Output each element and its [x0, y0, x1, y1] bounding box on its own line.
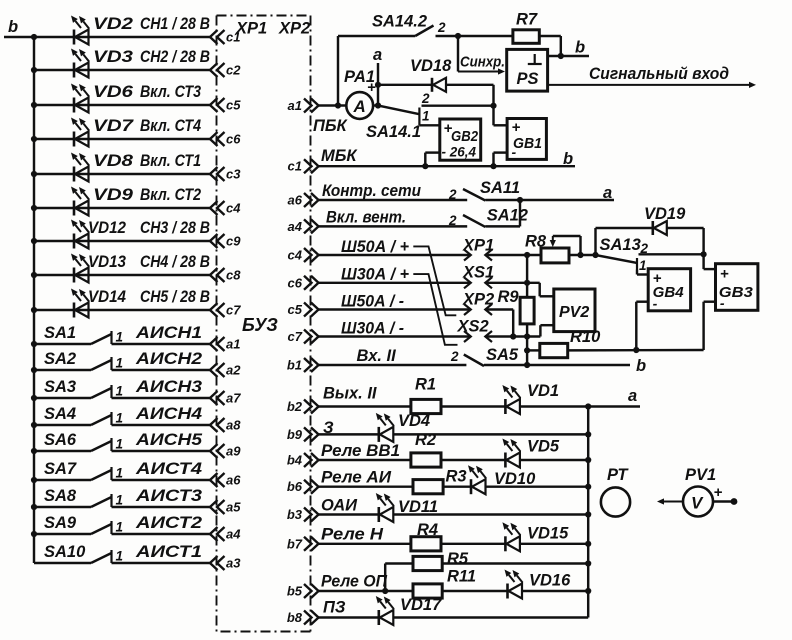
junction R9 bottom on b line: [524, 362, 530, 368]
connector pin a6 (XP2 right): [288, 193, 319, 208]
junction bus-VD3: [31, 67, 37, 73]
switch SA4: [91, 411, 123, 426]
wire Vyh-II row from pin b2: [319, 405, 411, 407]
svg-text:СН2 / 28 В: СН2 / 28 В: [140, 48, 210, 66]
svg-text:a4: a4: [226, 527, 241, 542]
LED VD14: [71, 289, 89, 318]
label VD11: [398, 498, 438, 516]
svg-text:b4: b4: [287, 453, 303, 468]
svg-text:VD12: VD12: [88, 219, 126, 237]
wire Kontr-seti row from pin a6: [319, 199, 468, 201]
label АИСТ2: [135, 514, 202, 532]
label АИСН5: [135, 431, 203, 449]
label SA7: [44, 460, 77, 478]
svg-text:b5: b5: [287, 584, 303, 599]
label Sh50A/+: [341, 238, 409, 256]
wire MBK row to node b: [319, 165, 576, 167]
LED VD13: [71, 254, 89, 283]
label VD9: [93, 186, 134, 204]
connector pin b8 (XP2 right): [287, 610, 319, 625]
node b (top): [575, 39, 585, 57]
resistor R11: [413, 584, 442, 598]
svg-text:PV2: PV2: [559, 304, 589, 321]
junction bus-SA7: [31, 477, 37, 483]
svg-text:b: b: [563, 150, 573, 168]
svg-text:VD14: VD14: [88, 288, 126, 306]
svg-text:c7: c7: [288, 329, 303, 344]
junction GB2-MBK: [422, 163, 428, 169]
wire row SA4 left part: [34, 424, 91, 426]
wire row SA3 right part: [112, 397, 211, 399]
indicator PT: [601, 487, 630, 516]
svg-text:1: 1: [422, 109, 430, 124]
label OAI: [321, 497, 358, 515]
wire SA11 to node a: [485, 199, 614, 201]
svg-text:2: 2: [437, 20, 446, 35]
svg-text:СН3 / 28 В: СН3 / 28 В: [140, 219, 210, 237]
wire Vkl-vent row from pin a4: [319, 225, 468, 227]
block PS synchronizer: [507, 49, 548, 91]
label plus at PV1: [714, 484, 723, 501]
connector pin b7 (XP2 right): [287, 536, 319, 551]
resistor R10: [540, 343, 568, 357]
label Sh30A/-: [341, 320, 404, 338]
svg-text:R3: R3: [446, 468, 467, 486]
svg-text:c4: c4: [288, 248, 303, 263]
connector pin a3 (XP1 left): [210, 556, 241, 571]
svg-text:c1: c1: [226, 30, 240, 45]
wire Sh30A/- row from pin c7: [319, 335, 471, 337]
svg-text:b9: b9: [287, 427, 303, 442]
junction bus2 b4: [585, 457, 591, 463]
wire row SA7 left part: [34, 479, 91, 481]
wire R10 line: [527, 349, 540, 351]
svg-text:c1: c1: [288, 159, 302, 174]
LED VD4: [376, 413, 394, 442]
node a above PA1: [373, 46, 382, 64]
svg-text:1: 1: [116, 437, 124, 452]
LED VD3: [71, 49, 89, 78]
svg-text:СН5 / 28 В: СН5 / 28 В: [140, 288, 210, 306]
wire row VD3: [34, 69, 211, 71]
label Vh. II: [357, 347, 397, 365]
LED VD11: [376, 493, 394, 522]
junction GB1-MBK: [490, 163, 496, 169]
wire row SA7 right part: [112, 479, 211, 481]
svg-text:Ш50А / -: Ш50А / -: [341, 293, 404, 311]
wire riser to SA14.2 line: [337, 36, 339, 106]
wire R8 to SA13 node: [569, 254, 596, 256]
svg-text:1: 1: [116, 520, 124, 535]
junction bus-VD8: [31, 171, 37, 177]
svg-text:a: a: [603, 184, 612, 202]
wire VD16 to bus2: [522, 590, 588, 592]
connector pin b2 (XP2 right): [287, 399, 319, 414]
junction PBK riser: [335, 102, 341, 108]
label VD5: [527, 438, 560, 456]
svg-text:Вкл. СТ1: Вкл. СТ1: [140, 152, 201, 170]
value label СН1 / 28 В for VD2: [140, 15, 210, 33]
callout line Sh50A to XS2: [413, 246, 456, 315]
svg-text:SA13: SA13: [600, 236, 641, 254]
label PT: [607, 466, 629, 484]
connector pin c1 (XP1 left): [210, 30, 240, 45]
wire PBK row from pin a1 to ammeter: [319, 104, 347, 106]
svg-text:+: +: [720, 266, 729, 283]
svg-text:Реле АИ: Реле АИ: [321, 469, 392, 487]
resistor R7: [513, 30, 539, 44]
value label СН3 / 28 В for VD12: [140, 219, 210, 237]
dashed enclosure BUZ block outline: [217, 16, 311, 632]
svg-text:c5: c5: [226, 98, 241, 113]
label PV1: [685, 466, 716, 484]
label R1: [415, 376, 436, 394]
wire R7 to b-line corner: [539, 36, 561, 56]
connector pin b1 (XP2 right): [287, 358, 319, 373]
wire Z row from pin b9: [319, 433, 379, 435]
junction bus-SA4: [31, 422, 37, 428]
svg-text:1: 1: [116, 411, 124, 426]
svg-text:Ш30А / -: Ш30А / -: [341, 320, 404, 338]
wire row SA8 left part: [34, 506, 91, 508]
svg-text:SA2: SA2: [44, 350, 76, 368]
connector pin a4 (XP2 right): [288, 219, 319, 234]
label SA14.1: [366, 123, 421, 141]
svg-text:Синхр.: Синхр.: [460, 54, 505, 71]
label Sh50A/-: [341, 293, 404, 311]
wire row VD6: [34, 104, 211, 106]
svg-text:a7: a7: [226, 391, 241, 406]
wire row SA2 right part: [112, 369, 211, 371]
label АИСН2: [135, 350, 202, 368]
wire SA13 contact1 to GB4: [637, 270, 648, 275]
junction bus2 b5: [585, 588, 591, 594]
switch SA5: [450, 349, 484, 366]
label XP1 (mid connector): [462, 237, 494, 255]
wire SA13 riser to VD19 line: [594, 228, 596, 255]
wire row SA10 left part: [34, 562, 91, 564]
junction R8 wiper tie: [577, 252, 583, 258]
connector pin a7 (XP1 left): [210, 391, 241, 406]
svg-text:ПЗ: ПЗ: [323, 599, 346, 617]
svg-text:2: 2: [640, 241, 649, 256]
label MBK net: [321, 147, 358, 165]
label R10: [570, 328, 601, 346]
wire PV1 left lead with arrow: [657, 498, 683, 504]
switch SA11: [448, 187, 485, 202]
connector pin b3 (XP2 right): [287, 507, 319, 522]
callout line Sh30A to SA5: [413, 274, 457, 345]
label SA5: [486, 346, 519, 364]
wire row SA3 left part: [34, 397, 91, 399]
wire SA14.2 contact to R7: [436, 35, 513, 37]
svg-text:Реле ВВ1: Реле ВВ1: [321, 442, 400, 460]
wire row SA1 left part: [34, 343, 91, 345]
svg-text:b1: b1: [287, 358, 302, 373]
svg-text:c9: c9: [226, 234, 241, 249]
connector pin a6 (XP1 left): [210, 473, 241, 488]
label SA9: [44, 514, 77, 532]
LED VD8: [71, 153, 89, 182]
wire row SA9 left part: [34, 533, 91, 535]
value label СН5 / 28 В for VD14: [140, 288, 210, 306]
node a (Vyh II): [628, 387, 637, 405]
svg-text:R5: R5: [447, 550, 469, 568]
svg-text:c3: c3: [226, 167, 241, 182]
svg-text:СН1 / 28 В: СН1 / 28 В: [140, 15, 210, 33]
switch SA1: [91, 330, 123, 345]
LED VD5: [502, 439, 520, 468]
label SA4: [44, 405, 76, 423]
wire Sh30A/+ row from pin c6: [319, 282, 471, 284]
diode VD18: [432, 78, 446, 92]
switch SA12: [448, 213, 485, 228]
connector pair XS1: [464, 277, 492, 288]
junction bus-VD9: [31, 205, 37, 211]
wire row VD14: [34, 309, 211, 311]
svg-text:- 26,4: - 26,4: [442, 145, 477, 160]
label VD15: [527, 525, 569, 543]
svg-text:c5: c5: [288, 302, 303, 317]
wire R5 to bus2: [442, 562, 588, 564]
connector pin b9 (XP2 right): [287, 427, 319, 442]
connector pin a4 (XP1 left): [210, 527, 241, 542]
label АИСТ4: [135, 460, 202, 478]
svg-text:a4: a4: [288, 219, 303, 234]
LED VD10: [468, 465, 486, 494]
label VD1: [527, 382, 559, 400]
svg-text:SA6: SA6: [44, 431, 77, 449]
svg-text:c4: c4: [226, 201, 241, 216]
battery GB1: [507, 119, 546, 161]
svg-text:Вкл. СТ3: Вкл. СТ3: [140, 83, 201, 101]
LED VD15: [502, 522, 520, 551]
switch SA13 blade and contacts: [596, 241, 704, 273]
junction bus-SA8: [31, 504, 37, 510]
voltmeter PV1: [683, 487, 713, 517]
label R9: [498, 288, 520, 306]
svg-text:R4: R4: [417, 521, 438, 539]
label Z: [323, 419, 334, 437]
wire SA5 to node b: [484, 364, 630, 366]
wire left bus vertical: [33, 37, 35, 563]
wire PZ row from pin b8: [319, 616, 379, 618]
svg-text:VD1: VD1: [527, 382, 559, 400]
wire VD15 to bus2: [520, 543, 588, 545]
junction bus-SA3: [31, 395, 37, 401]
svg-text:a6: a6: [288, 193, 303, 208]
junction bus2 top: [585, 403, 591, 409]
svg-text:АИСН3: АИСН3: [135, 378, 202, 396]
switch SA3: [91, 384, 123, 399]
svg-text:-: -: [512, 144, 517, 160]
svg-text:-: -: [653, 296, 658, 312]
wire PS out to node b: [548, 55, 589, 57]
label АИСН4: [135, 405, 202, 423]
wire VD11 to bus2: [393, 513, 588, 515]
svg-text:a1: a1: [288, 98, 302, 113]
wire row SA8 right part: [112, 506, 211, 508]
junction XP2 drop on XS2 row: [510, 333, 516, 339]
wire OAI row from pin b3: [319, 513, 379, 515]
junction bus2 b3: [585, 511, 591, 517]
svg-text:a8: a8: [226, 418, 241, 433]
label АИСТ1: [135, 543, 202, 561]
label XP1 connector name: [235, 20, 267, 38]
svg-text:a1: a1: [226, 337, 240, 352]
svg-text:a: a: [373, 46, 382, 64]
label VD13: [88, 253, 126, 271]
wire R2 to VD5: [441, 459, 505, 461]
wire GB2 minus to MBK: [425, 153, 440, 167]
label Vkl. vent.: [326, 209, 406, 227]
label АИСТ3: [135, 487, 202, 505]
svg-text:ХS2: ХS2: [457, 318, 489, 336]
switch SA7: [91, 466, 123, 481]
svg-text:АИСН4: АИСН4: [135, 405, 202, 423]
connector pin c6 (XP2 right): [288, 275, 319, 290]
junction R7-drop on b line: [558, 53, 564, 59]
svg-text:SA8: SA8: [44, 487, 77, 505]
svg-text:V: V: [691, 494, 704, 513]
svg-text:VD8: VD8: [93, 152, 134, 170]
svg-text:АИСТ4: АИСТ4: [135, 460, 202, 478]
svg-text:Вкл. вент.: Вкл. вент.: [326, 209, 406, 227]
svg-text:1: 1: [116, 466, 124, 481]
label Rele AI: [321, 469, 392, 487]
svg-text:SA4: SA4: [44, 405, 76, 423]
connector pin c6 (XP1 left): [210, 132, 241, 147]
junction sync tap: [455, 33, 461, 39]
svg-text:PS: PS: [517, 70, 539, 88]
label VD3: [93, 48, 133, 66]
junction bus2 b9: [585, 431, 591, 437]
svg-text:АИСТ1: АИСТ1: [135, 543, 202, 561]
svg-text:SA3: SA3: [44, 378, 76, 396]
switch SA10: [91, 549, 123, 564]
node a (right of SA11): [603, 184, 612, 202]
junction bus2 R5 row: [585, 560, 591, 566]
svg-text:b: b: [636, 357, 646, 375]
label VD4: [398, 412, 430, 430]
svg-text:VD18: VD18: [410, 57, 452, 75]
connector pin b5 (XP2 right): [287, 584, 319, 599]
junction R9 top: [524, 252, 530, 258]
junction VD18 branch: [375, 82, 381, 88]
label Kontr. seti: [322, 182, 421, 200]
svg-text:GB2: GB2: [451, 128, 479, 145]
svg-text:b: b: [8, 18, 18, 36]
label XS2 (mid connector): [457, 318, 489, 336]
svg-text:2: 2: [450, 349, 459, 364]
wire row VD9: [34, 207, 211, 209]
switch SA14.1 blade and contacts: [378, 91, 494, 125]
label Rele N: [321, 526, 384, 544]
wire row VD12: [34, 240, 211, 242]
label Vyh. II: [323, 385, 377, 403]
label VD6: [93, 83, 134, 101]
wire row VD7: [34, 138, 211, 140]
label R3: [446, 468, 467, 486]
svg-text:R7: R7: [516, 11, 538, 29]
svg-text:1: 1: [639, 258, 647, 273]
label Sh30A/+: [341, 266, 409, 284]
label VD17: [400, 596, 442, 614]
connector pin a2 (XP1 left): [210, 363, 241, 378]
node b (Vh II): [636, 357, 646, 375]
wire contact1 to GB2: [419, 124, 439, 126]
wire row VD8: [34, 173, 211, 175]
svg-text:R11: R11: [447, 568, 476, 586]
connector pin c7 (XP1 left): [210, 303, 241, 318]
wire VD5 to bus2: [520, 459, 588, 461]
LED VD2: [71, 16, 89, 45]
svg-text:АИСН2: АИСН2: [135, 350, 202, 368]
wire R11 to VD16: [442, 590, 507, 592]
wire Rele-AI row from pin b6: [319, 485, 414, 487]
svg-text:b7: b7: [287, 536, 303, 551]
label XP2 (mid connector): [462, 291, 494, 309]
svg-text:a9: a9: [226, 444, 241, 459]
node b input top-left: [4, 18, 34, 37]
value label Вкл. СТ2 for VD9: [140, 186, 201, 204]
label R8: [525, 233, 547, 251]
svg-text:R2: R2: [415, 431, 436, 449]
wire row VD2: [34, 36, 211, 38]
LED VD9: [71, 187, 89, 216]
junction bus-SA1: [31, 341, 37, 347]
ammeter PA1: [346, 92, 373, 119]
svg-text:1: 1: [116, 493, 124, 508]
svg-text:ХР2: ХР2: [278, 20, 310, 38]
label SA8: [44, 487, 77, 505]
label plus at PA1: [367, 79, 376, 96]
resistor R3: [413, 480, 443, 494]
svg-text:ХS1: ХS1: [462, 264, 494, 282]
label VD2: [93, 15, 133, 33]
wire row SA6 left part: [34, 450, 91, 452]
connector pair XS2: [464, 331, 492, 342]
battery GB2: [440, 119, 481, 160]
wire R4 to VD15: [441, 543, 505, 545]
svg-text:VD3: VD3: [93, 48, 133, 66]
label SA14.2: [372, 13, 427, 31]
svg-text:a2: a2: [226, 363, 241, 378]
value label СН2 / 28 В for VD3: [140, 48, 210, 66]
label R5: [447, 550, 469, 568]
svg-text:Вкл. СТ2: Вкл. СТ2: [140, 186, 201, 204]
wire R10 to GB minus line: [568, 349, 704, 352]
wire Vh-II row from pin b1: [319, 364, 467, 366]
svg-text:ХР1: ХР1: [462, 237, 494, 255]
svg-text:GB4: GB4: [653, 284, 685, 301]
wire XP2 down to XS2 row: [485, 310, 513, 337]
label Rele VV1: [321, 442, 400, 460]
svg-text:c7: c7: [226, 303, 241, 318]
svg-text:АИСТ3: АИСТ3: [135, 487, 202, 505]
junction R5 branch: [382, 588, 388, 594]
label R2: [415, 431, 436, 449]
label SA11: [480, 179, 520, 197]
label VD19: [644, 205, 686, 223]
wire VD10 to bus2: [486, 485, 589, 487]
wire row SA1 right part: [112, 343, 211, 345]
svg-text:Ш30А / +: Ш30А / +: [341, 266, 409, 284]
wire Rele-OP row from pin b5: [319, 590, 414, 592]
value label СН4 / 28 В for VD13: [140, 253, 210, 271]
svg-text:1: 1: [116, 549, 124, 564]
svg-text:Ш50А / +: Ш50А / +: [341, 238, 409, 256]
